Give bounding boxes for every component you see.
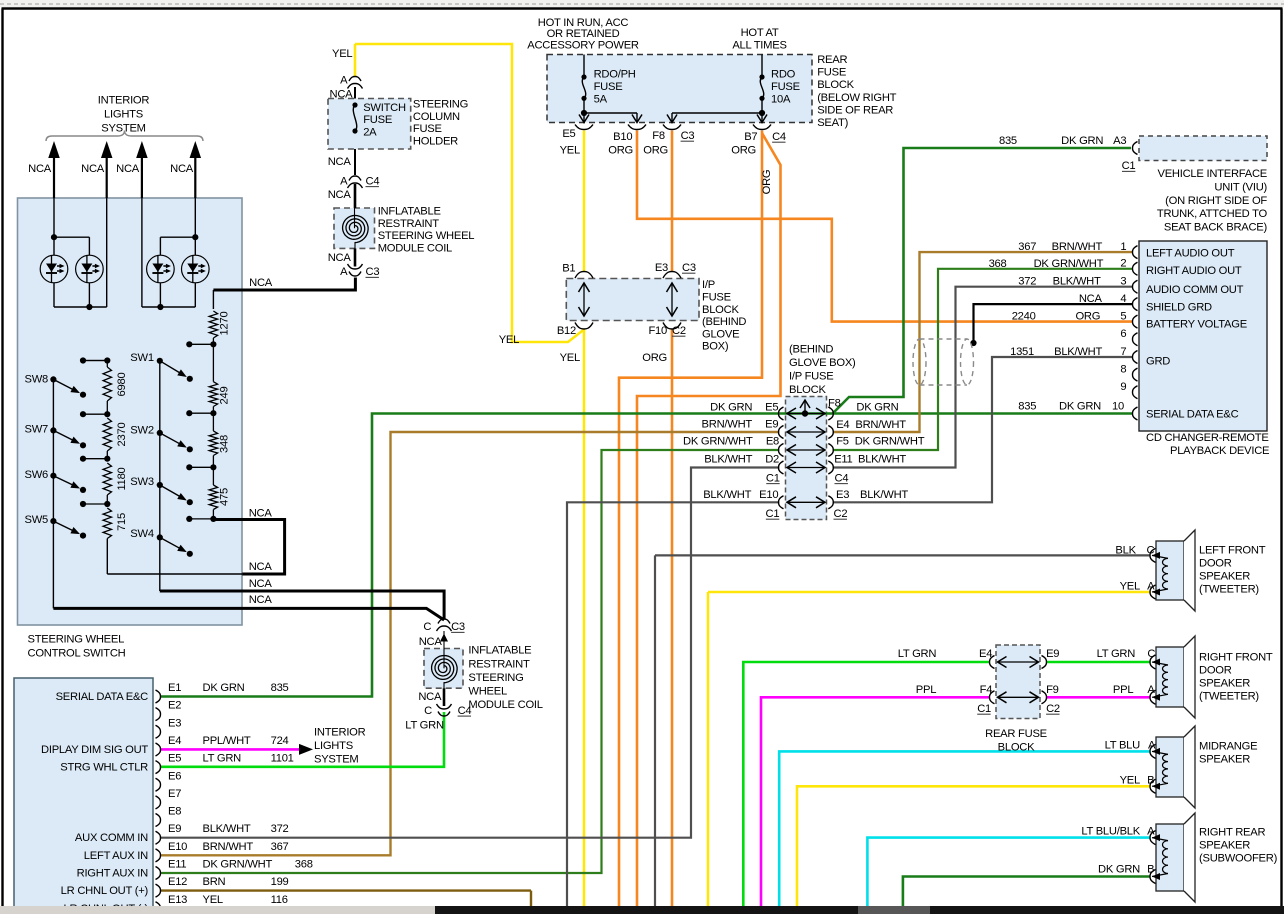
svg-text:(BEHIND: (BEHIND [789, 344, 833, 356]
svg-text:NCA: NCA [328, 156, 352, 168]
svg-text:INFLATABLE: INFLATABLE [468, 645, 531, 657]
svg-text:E4: E4 [836, 419, 849, 431]
svg-text:199: 199 [271, 876, 289, 888]
svg-text:E5: E5 [562, 128, 575, 140]
svg-text:E11: E11 [834, 454, 852, 466]
svg-text:HOT IN RUN, ACC: HOT IN RUN, ACC [538, 17, 629, 29]
svg-text:B12: B12 [557, 325, 576, 337]
svg-text:STEERING: STEERING [468, 672, 523, 684]
svg-text:NCA: NCA [249, 561, 273, 573]
svg-text:8: 8 [1120, 363, 1126, 375]
svg-text:BRN/WHT: BRN/WHT [702, 419, 753, 431]
svg-text:A: A [1147, 580, 1155, 592]
svg-text:TRUNK, ATTCHED TO: TRUNK, ATTCHED TO [1157, 208, 1268, 220]
svg-text:DK GRN/WHT: DK GRN/WHT [1034, 258, 1104, 270]
svg-text:C3: C3 [451, 621, 465, 633]
svg-text:NCA: NCA [81, 163, 105, 175]
svg-text:10A: 10A [771, 93, 791, 105]
svg-text:C1: C1 [1122, 160, 1136, 172]
svg-text:10: 10 [1112, 401, 1124, 413]
svg-text:AUX COMM IN: AUX COMM IN [75, 832, 148, 844]
svg-text:LT GRN: LT GRN [405, 720, 444, 732]
svg-text:GLOVE: GLOVE [702, 328, 739, 340]
svg-text:2240: 2240 [1012, 311, 1036, 323]
svg-text:YEL: YEL [1120, 775, 1140, 787]
svg-text:I/P FUSE: I/P FUSE [789, 371, 833, 383]
svg-text:1351: 1351 [1010, 346, 1034, 358]
svg-text:372: 372 [271, 823, 289, 835]
svg-text:BLK/WHT: BLK/WHT [704, 454, 752, 466]
svg-text:REAR FUSE: REAR FUSE [985, 728, 1047, 740]
svg-text:RIGHT AUDIO OUT: RIGHT AUDIO OUT [1146, 265, 1242, 277]
svg-text:BRN/WHT: BRN/WHT [1052, 241, 1103, 253]
svg-text:NCA: NCA [249, 508, 273, 520]
svg-text:C2: C2 [834, 508, 848, 520]
svg-text:GRD: GRD [1146, 356, 1170, 368]
svg-text:E2: E2 [168, 700, 181, 712]
svg-text:1270: 1270 [219, 312, 231, 336]
svg-text:(SUBWOOFER): (SUBWOOFER) [1199, 853, 1278, 865]
svg-text:DK GRN/WHT: DK GRN/WHT [203, 859, 273, 871]
svg-text:475: 475 [219, 488, 231, 506]
svg-text:C4: C4 [835, 472, 849, 484]
svg-text:LEFT FRONT: LEFT FRONT [1199, 545, 1266, 557]
svg-text:RDO: RDO [771, 69, 796, 81]
svg-text:C2: C2 [1046, 703, 1060, 715]
svg-text:E1: E1 [168, 682, 181, 694]
svg-text:E13: E13 [168, 894, 187, 906]
svg-text:B1: B1 [562, 262, 575, 274]
svg-text:YEL: YEL [332, 48, 352, 60]
svg-text:SPEAKER: SPEAKER [1199, 840, 1250, 852]
svg-text:DK GRN: DK GRN [203, 682, 245, 694]
svg-text:PPL: PPL [1113, 684, 1133, 696]
svg-text:DK GRN: DK GRN [1098, 863, 1140, 875]
svg-text:2A: 2A [363, 127, 377, 139]
svg-text:RIGHT AUX IN: RIGHT AUX IN [77, 868, 149, 880]
svg-text:FUSE: FUSE [363, 114, 392, 126]
svg-text:ORG: ORG [642, 352, 667, 364]
svg-text:RDO/PH: RDO/PH [594, 69, 636, 81]
svg-text:368: 368 [295, 859, 313, 871]
svg-text:C3: C3 [682, 262, 696, 274]
svg-text:724: 724 [271, 735, 289, 747]
svg-text:E5: E5 [168, 753, 181, 765]
svg-text:C: C [423, 621, 431, 633]
svg-text:LR CHNL OUT (+): LR CHNL OUT (+) [61, 885, 149, 897]
svg-text:CD CHANGER-REMOTE: CD CHANGER-REMOTE [1146, 432, 1269, 444]
svg-text:NCA: NCA [330, 89, 354, 101]
svg-text:BLOCK: BLOCK [998, 742, 1035, 754]
svg-text:SERIAL DATA E&C: SERIAL DATA E&C [56, 691, 149, 703]
svg-text:YEL: YEL [560, 352, 580, 364]
svg-text:(TWEETER): (TWEETER) [1199, 584, 1259, 596]
svg-text:NCA: NCA [418, 691, 442, 703]
svg-text:SERIAL DATA E&C: SERIAL DATA E&C [1146, 409, 1239, 421]
svg-text:B10: B10 [613, 131, 632, 143]
svg-text:LIGHTS: LIGHTS [104, 108, 143, 120]
svg-text:A: A [340, 266, 348, 278]
svg-text:VEHICLE INTERFACE: VEHICLE INTERFACE [1157, 168, 1267, 180]
svg-text:OR RETAINED: OR RETAINED [547, 28, 620, 40]
svg-text:BLOCK: BLOCK [702, 304, 739, 316]
svg-text:F10: F10 [648, 325, 667, 337]
svg-text:(TWEETER): (TWEETER) [1199, 691, 1259, 703]
svg-text:1101: 1101 [271, 753, 294, 765]
svg-text:D2: D2 [765, 454, 779, 466]
svg-text:BLK/WHT: BLK/WHT [203, 823, 251, 835]
svg-text:SEAT): SEAT) [817, 117, 848, 129]
svg-text:DK GRN/WHT: DK GRN/WHT [855, 436, 925, 448]
svg-text:E9: E9 [1046, 648, 1059, 660]
svg-text:BLOCK: BLOCK [789, 384, 826, 396]
svg-text:5A: 5A [594, 93, 608, 105]
svg-text:E10: E10 [759, 489, 778, 501]
svg-text:DK GRN/WHT: DK GRN/WHT [683, 436, 753, 448]
svg-text:C2: C2 [672, 325, 686, 337]
svg-text:1180: 1180 [116, 467, 128, 490]
svg-text:NCA: NCA [328, 252, 352, 264]
svg-text:RIGHT FRONT: RIGHT FRONT [1199, 652, 1273, 664]
svg-text:SW2: SW2 [130, 425, 154, 437]
svg-text:LT GRN: LT GRN [898, 648, 937, 660]
svg-text:SIDE OF REAR: SIDE OF REAR [817, 104, 893, 116]
svg-text:SW6: SW6 [25, 469, 49, 481]
svg-text:FUSE: FUSE [771, 81, 800, 93]
svg-text:FUSE: FUSE [702, 292, 731, 304]
svg-text:ORG: ORG [731, 145, 756, 157]
svg-text:E3: E3 [836, 489, 849, 501]
svg-text:715: 715 [116, 513, 128, 531]
svg-text:PPL/WHT: PPL/WHT [203, 735, 251, 747]
svg-text:BRN/WHT: BRN/WHT [855, 419, 906, 431]
svg-text:A: A [1147, 684, 1155, 696]
svg-text:SYSTEM: SYSTEM [314, 753, 359, 765]
svg-text:C1: C1 [766, 472, 780, 484]
svg-text:C3: C3 [681, 130, 695, 142]
svg-text:LT BLU/BLK: LT BLU/BLK [1081, 826, 1140, 838]
svg-text:REAR: REAR [817, 54, 847, 66]
svg-text:BLK/WHT: BLK/WHT [1053, 276, 1101, 288]
svg-text:E8: E8 [168, 806, 181, 818]
svg-text:BATTERY VOLTAGE: BATTERY VOLTAGE [1146, 319, 1247, 331]
svg-text:SEAT BACK BRACE): SEAT BACK BRACE) [1164, 222, 1268, 234]
svg-text:BLK/WHT: BLK/WHT [860, 489, 908, 501]
svg-text:F4: F4 [980, 684, 993, 696]
svg-text:DK GRN: DK GRN [856, 401, 898, 413]
svg-text:LEFT AUX IN: LEFT AUX IN [84, 850, 148, 862]
svg-text:FUSE: FUSE [413, 123, 442, 135]
svg-text:NCA: NCA [1079, 293, 1103, 305]
svg-text:E6: E6 [168, 770, 181, 782]
svg-text:CONTROL SWITCH: CONTROL SWITCH [28, 647, 126, 659]
svg-text:C: C [1146, 544, 1154, 556]
svg-text:SW3: SW3 [130, 476, 154, 488]
svg-text:348: 348 [219, 435, 231, 453]
svg-text:E4: E4 [979, 648, 992, 660]
svg-text:DOOR: DOOR [1199, 558, 1232, 570]
svg-text:HOT AT: HOT AT [741, 27, 779, 39]
svg-text:BLK: BLK [1115, 544, 1136, 556]
svg-text:DK GRN: DK GRN [1061, 135, 1103, 147]
svg-text:E9: E9 [765, 419, 778, 431]
svg-text:LEFT AUDIO OUT: LEFT AUDIO OUT [1146, 247, 1235, 259]
svg-text:E9: E9 [168, 823, 181, 835]
svg-text:2370: 2370 [116, 423, 128, 447]
svg-text:BLOCK: BLOCK [817, 79, 854, 91]
svg-text:NCA: NCA [328, 189, 352, 201]
svg-text:368: 368 [989, 258, 1007, 270]
svg-text:YEL: YEL [560, 145, 580, 157]
svg-text:ORG: ORG [608, 145, 633, 157]
svg-text:E3: E3 [168, 717, 181, 729]
svg-text:INTERIOR: INTERIOR [314, 727, 366, 739]
svg-text:WHEEL: WHEEL [468, 686, 507, 698]
svg-text:DIPLAY DIM SIG OUT: DIPLAY DIM SIG OUT [41, 744, 148, 756]
svg-text:YEL: YEL [499, 334, 519, 346]
svg-text:SW1: SW1 [130, 352, 154, 364]
svg-text:MIDRANGE: MIDRANGE [1199, 741, 1257, 753]
svg-text:C1: C1 [765, 508, 779, 520]
svg-text:A: A [1148, 739, 1156, 751]
svg-text:DK GRN: DK GRN [1059, 401, 1101, 413]
svg-text:367: 367 [1018, 241, 1036, 253]
svg-text:BLK/WHT: BLK/WHT [858, 454, 906, 466]
svg-text:B: B [1147, 775, 1154, 787]
svg-text:RIGHT REAR: RIGHT REAR [1199, 827, 1265, 839]
svg-text:C1: C1 [977, 703, 991, 715]
svg-text:A: A [340, 175, 348, 187]
svg-text:LT GRN: LT GRN [203, 753, 242, 765]
svg-text:DK GRN: DK GRN [710, 401, 752, 413]
svg-text:249: 249 [219, 387, 231, 405]
svg-text:2: 2 [1120, 258, 1126, 270]
svg-text:NCA: NCA [249, 594, 273, 606]
svg-text:E7: E7 [168, 788, 181, 800]
svg-text:3: 3 [1120, 276, 1126, 288]
svg-text:F8: F8 [652, 130, 665, 142]
svg-text:BOX): BOX) [702, 341, 729, 353]
svg-text:ACCESSORY POWER: ACCESSORY POWER [527, 39, 639, 51]
svg-text:(BEHIND: (BEHIND [702, 316, 746, 328]
svg-text:I/P: I/P [702, 279, 715, 291]
svg-text:6: 6 [1120, 328, 1126, 340]
svg-text:7: 7 [1120, 346, 1126, 358]
svg-text:(ON RIGHT SIDE OF: (ON RIGHT SIDE OF [1165, 195, 1267, 207]
svg-text:9: 9 [1120, 381, 1126, 393]
svg-text:E3: E3 [655, 262, 668, 274]
svg-text:E5: E5 [765, 401, 778, 413]
svg-text:BRN/WHT: BRN/WHT [203, 841, 254, 853]
svg-text:SPEAKER: SPEAKER [1199, 571, 1250, 583]
svg-text:367: 367 [271, 841, 289, 853]
svg-text:INFLATABLE: INFLATABLE [378, 206, 441, 218]
svg-text:C4: C4 [366, 175, 380, 187]
svg-text:1: 1 [1120, 241, 1126, 253]
svg-text:E10: E10 [168, 841, 187, 853]
svg-text:DOOR: DOOR [1199, 665, 1232, 677]
svg-text:E11: E11 [168, 859, 186, 871]
svg-text:RESTRAINT: RESTRAINT [468, 658, 530, 670]
svg-text:SWITCH: SWITCH [363, 102, 406, 114]
svg-text:A: A [1147, 826, 1155, 838]
svg-text:F9: F9 [1046, 684, 1059, 696]
svg-text:SW8: SW8 [25, 374, 49, 386]
svg-text:ORG: ORG [643, 145, 668, 157]
svg-text:HOLDER: HOLDER [413, 135, 458, 147]
svg-text:YEL: YEL [1120, 580, 1140, 592]
svg-text:COLUMN: COLUMN [413, 111, 460, 123]
svg-text:INTERIOR: INTERIOR [98, 95, 150, 107]
svg-text:C: C [1147, 648, 1155, 660]
svg-text:NCA: NCA [419, 636, 443, 648]
svg-text:SW7: SW7 [25, 424, 49, 436]
svg-text:GLOVE BOX): GLOVE BOX) [789, 357, 856, 369]
svg-text:ORG: ORG [1075, 311, 1100, 323]
svg-text:NCA: NCA [116, 163, 140, 175]
svg-text:(BELOW RIGHT: (BELOW RIGHT [817, 92, 896, 104]
svg-text:SHIELD GRD: SHIELD GRD [1146, 301, 1212, 313]
svg-text:SYSTEM: SYSTEM [101, 122, 146, 134]
svg-text:MODULE COIL: MODULE COIL [468, 699, 542, 711]
svg-text:B: B [1147, 863, 1154, 875]
svg-text:C3: C3 [366, 266, 380, 278]
svg-text:LT BLU: LT BLU [1105, 739, 1141, 751]
svg-text:LIGHTS: LIGHTS [314, 740, 353, 752]
svg-text:A: A [340, 75, 348, 87]
svg-text:E8: E8 [766, 436, 779, 448]
svg-text:STEERING WHEEL: STEERING WHEEL [378, 230, 475, 242]
svg-text:6980: 6980 [116, 373, 128, 397]
svg-text:FUSE: FUSE [594, 81, 623, 93]
svg-text:SPEAKER: SPEAKER [1199, 678, 1250, 690]
svg-text:SW5: SW5 [25, 514, 49, 526]
svg-text:5: 5 [1120, 310, 1126, 322]
svg-text:ALL TIMES: ALL TIMES [732, 39, 786, 51]
svg-text:835: 835 [1018, 401, 1036, 413]
svg-text:A3: A3 [1113, 135, 1126, 147]
svg-text:SW4: SW4 [130, 528, 154, 540]
svg-text:372: 372 [1018, 276, 1036, 288]
svg-text:NCA: NCA [170, 163, 194, 175]
svg-text:NCA: NCA [249, 578, 273, 590]
svg-text:BLK/WHT: BLK/WHT [1054, 346, 1102, 358]
svg-text:ORG: ORG [761, 170, 773, 195]
svg-text:E4: E4 [168, 735, 181, 747]
svg-text:STEERING: STEERING [413, 99, 468, 111]
svg-text:E12: E12 [168, 876, 187, 888]
svg-text:C4: C4 [772, 131, 786, 143]
svg-text:F8: F8 [828, 397, 841, 409]
svg-text:116: 116 [271, 894, 288, 906]
svg-text:STEERING WHEEL: STEERING WHEEL [28, 634, 125, 646]
svg-text:NCA: NCA [28, 163, 52, 175]
svg-text:PPL: PPL [916, 684, 936, 696]
svg-text:835: 835 [999, 135, 1017, 147]
svg-text:C: C [424, 705, 432, 717]
svg-text:835: 835 [271, 682, 289, 694]
svg-text:RESTRAINT: RESTRAINT [378, 218, 440, 230]
svg-text:BLK/WHT: BLK/WHT [703, 489, 751, 501]
svg-text:SPEAKER: SPEAKER [1199, 754, 1250, 766]
svg-text:UNIT (VIU): UNIT (VIU) [1214, 181, 1267, 193]
svg-text:PLAYBACK DEVICE: PLAYBACK DEVICE [1170, 445, 1269, 457]
svg-text:MODULE COIL: MODULE COIL [378, 242, 452, 254]
svg-text:B7: B7 [744, 131, 757, 143]
svg-text:AUDIO COMM OUT: AUDIO COMM OUT [1146, 284, 1244, 296]
svg-text:LT GRN: LT GRN [1097, 648, 1136, 660]
svg-text:4: 4 [1120, 293, 1126, 305]
svg-text:FUSE: FUSE [817, 67, 846, 79]
svg-text:BRN: BRN [203, 876, 226, 888]
svg-text:YEL: YEL [203, 894, 223, 906]
svg-text:STRG WHL CTLR: STRG WHL CTLR [60, 762, 148, 774]
svg-text:NCA: NCA [249, 277, 273, 289]
svg-text:F5: F5 [836, 436, 849, 448]
